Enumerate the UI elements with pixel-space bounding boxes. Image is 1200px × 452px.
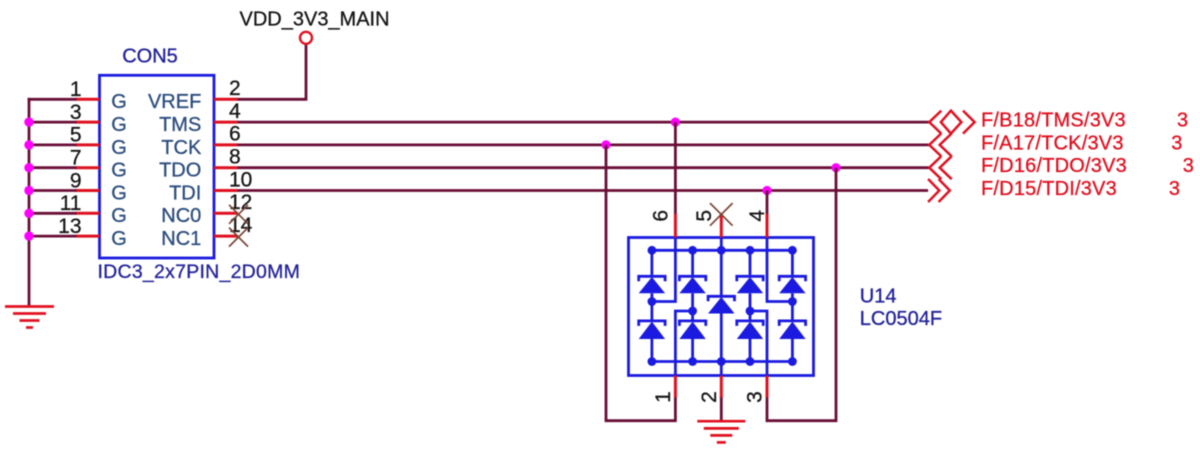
junction: TDI/U14.4 [762, 186, 771, 195]
ground symbol (U14 pin 2) [697, 421, 745, 442]
svg-text:TDI: TDI [169, 182, 201, 204]
svg-text:TDO: TDO [159, 160, 201, 182]
pin name VREF [148, 91, 201, 113]
pin number 14 [229, 214, 253, 237]
svg-text:U14: U14 [860, 286, 897, 308]
wire: bus to pin 7 [28, 166, 77, 169]
wire: net TDO horizontal [238, 166, 930, 169]
wire: bus to pin 3 [28, 121, 77, 124]
ESD array U14 body [629, 238, 814, 376]
pin number 5 [70, 124, 82, 147]
off-page connector F/D16/TDO/3V3 [929, 156, 951, 179]
label LC0504F (value) [860, 308, 942, 330]
steering diode pair column 2 (U14) [679, 250, 705, 361]
off-page connector F/D15/TDI/3V3 [928, 179, 950, 202]
svg-text:G: G [111, 182, 127, 204]
pin number 3 [70, 101, 82, 124]
svg-text:NC0: NC0 [161, 205, 201, 227]
net label F/D16/TDO/3V3 [981, 155, 1127, 177]
pin 10 stub (CON5 right) [214, 189, 238, 192]
U14 pin6 internal line [652, 238, 676, 302]
ground symbol (CON5 shield bus) [5, 307, 54, 328]
net label F/D15/TDI/3V3 [981, 178, 1117, 200]
U14 internal top rail [652, 249, 793, 252]
pin name G (pin 9) [111, 182, 127, 204]
wire: TCK down to U14 pin 1 [606, 145, 675, 421]
svg-text:5: 5 [70, 124, 82, 147]
no-connect X on CON5 pin 12 (NC0) [229, 205, 248, 224]
junction: bus/pin 7 [24, 163, 33, 172]
power port VDD_3V3_MAIN (circle) [300, 32, 312, 44]
svg-text:VREF: VREF [148, 91, 201, 113]
pin 12 stub (CON5 right) [214, 212, 238, 215]
svg-text:IDC3_2x7PIN_2D0MM: IDC3_2x7PIN_2D0MM [98, 261, 301, 283]
pin number 6 (U14) [650, 210, 673, 222]
svg-text:G: G [111, 91, 127, 113]
svg-text:TCK: TCK [161, 137, 202, 159]
net label VDD_3V3_MAIN [240, 9, 390, 31]
svg-text:CON5: CON5 [122, 46, 178, 68]
pin 9 stub (CON5 left) [76, 189, 100, 192]
svg-text:13: 13 [58, 215, 81, 238]
svg-text:TMS: TMS [159, 114, 201, 136]
pin number 1 [70, 78, 82, 101]
U14 pin3 internal line [750, 311, 767, 376]
junction: bus/pin 3 [24, 117, 33, 126]
svg-text:3: 3 [1169, 178, 1180, 200]
pin 5 stub (U14 top) [720, 214, 723, 238]
pin name TCK [161, 137, 202, 159]
wire: TMS down to U14 pin 6 [674, 122, 677, 215]
pin number 3 (U14) [744, 391, 767, 403]
svg-text:G: G [111, 160, 127, 182]
wire: bus to pin 1 [28, 98, 77, 101]
pin name G (pin 5) [111, 137, 127, 159]
svg-text:10: 10 [229, 168, 252, 191]
svg-text:G: G [111, 228, 127, 250]
svg-text:1: 1 [70, 78, 82, 101]
U14 pin1 internal line [675, 311, 692, 376]
wire: bus to pin 5 [28, 143, 77, 146]
sheet number 3 (TCK) [1171, 132, 1182, 154]
wire: TDO down to U14 pin 3 [767, 168, 836, 421]
off-page connector F/B18/TMS/3V3 [929, 111, 974, 134]
pin 8 stub (CON5 right) [214, 166, 238, 169]
pin number 5 (U14) [693, 210, 716, 222]
pin name NC0 [161, 205, 201, 227]
svg-text:4: 4 [229, 100, 241, 123]
svg-text:1: 1 [652, 391, 675, 403]
svg-text:NC1: NC1 [161, 228, 201, 250]
pin 5 stub (CON5 left) [76, 143, 100, 146]
pin 4 stub (CON5 right) [214, 121, 238, 124]
junction: TCK/U14.1 [601, 140, 610, 149]
pin number 12 [229, 191, 252, 214]
pin 14 stub (CON5 right) [214, 235, 238, 238]
U14 pin2 internal line (bottom) [720, 314, 723, 376]
svg-text:VDD_3V3_MAIN: VDD_3V3_MAIN [240, 9, 390, 31]
junction: bus/pin 11 [24, 209, 33, 218]
pin name TMS [159, 114, 201, 136]
wire: pin 2 to power port [238, 44, 307, 99]
svg-text:2: 2 [698, 391, 721, 403]
junction: TDO/U14.3 [831, 163, 840, 172]
svg-text:3: 3 [1183, 155, 1194, 177]
pin name G (pin 3) [111, 114, 127, 136]
off-page connector F/A17/TCK/3V3 [929, 133, 951, 156]
svg-text:2: 2 [229, 77, 241, 100]
steering diode pair column 4 (U14) [779, 250, 805, 361]
junction: bus/pin 9 [24, 186, 33, 195]
junction: bus/pin 13 [24, 231, 33, 240]
svg-text:7: 7 [70, 147, 82, 170]
wire: net TCK horizontal [238, 143, 930, 146]
pin 3 stub (CON5 left) [76, 121, 100, 124]
label IDC3_2x7PIN_2D0MM (value) [98, 261, 301, 283]
svg-text:6: 6 [229, 123, 241, 146]
svg-text:11: 11 [60, 192, 82, 215]
svg-text:4: 4 [746, 210, 769, 222]
junction: bus/pin 5 [24, 140, 33, 149]
label U14 (refdes) [860, 286, 897, 308]
pin name G (pin 13) [111, 228, 127, 250]
pin 7 stub (CON5 left) [76, 166, 100, 169]
svg-text:3: 3 [1177, 110, 1188, 132]
wire: ground bus vertical (left) [28, 98, 31, 306]
svg-text:3: 3 [70, 101, 82, 124]
pin 6 stub (U14 top) [674, 214, 677, 238]
pin 13 stub (CON5 left) [76, 235, 100, 238]
svg-text:5: 5 [693, 210, 716, 222]
pin number 10 [229, 168, 252, 191]
pin 2 stub (U14 bottom) [720, 376, 723, 398]
no-connect X on CON5 pin 14 (NC1) [229, 228, 248, 247]
pin 1 stub (CON5 left) [76, 98, 100, 101]
pin name G (pin 1) [111, 91, 127, 113]
wire: bus to pin 13 [28, 235, 77, 238]
pin number 11 [60, 192, 82, 215]
net label F/B18/TMS/3V3 [981, 110, 1126, 132]
wire: U14 pin 2 to ground [720, 397, 723, 421]
wire: TDI down to U14 pin 4 [766, 191, 769, 215]
wire: net TMS horizontal [238, 121, 930, 124]
pin number 4 [229, 100, 241, 123]
steering diode pair column 1 (U14) [639, 250, 665, 361]
svg-text:9: 9 [70, 169, 82, 192]
svg-text:G: G [111, 205, 127, 227]
sheet number 3 (TDO) [1183, 155, 1194, 177]
connector CON5 body [100, 75, 215, 258]
pin name TDI [169, 182, 201, 204]
U14 pin5 internal line (top) [720, 238, 723, 296]
svg-text:F/D15/TDI/3V3: F/D15/TDI/3V3 [981, 178, 1117, 200]
pin 4 stub (U14 top) [766, 214, 769, 238]
pin name G (pin 11) [111, 205, 127, 227]
sheet number 3 (TMS) [1177, 110, 1188, 132]
pin name TDO [159, 160, 201, 182]
pin number 1 (U14) [652, 391, 675, 403]
pin 11 stub (CON5 left) [76, 212, 100, 215]
no-connect X on U14 pin 5 [710, 203, 733, 226]
svg-text:G: G [111, 114, 127, 136]
wire: net TDI horizontal [238, 189, 929, 192]
pin number 7 [70, 147, 82, 170]
pin 1 stub (U14 bottom) [674, 376, 677, 398]
net label F/A17/TCK/3V3 [981, 132, 1124, 154]
wire: bus to pin 11 [28, 212, 77, 215]
pin number 4 (U14) [746, 210, 769, 222]
pin number 2 (U14) [698, 391, 721, 403]
svg-text:F/A17/TCK/3V3: F/A17/TCK/3V3 [981, 132, 1124, 154]
pin 6 stub (CON5 right) [214, 143, 238, 146]
pin name NC1 [161, 228, 201, 250]
junction: TMS/U14.6 [671, 118, 680, 127]
svg-text:LC0504F: LC0504F [860, 308, 942, 330]
pin number 6 [229, 123, 241, 146]
pin number 13 [58, 215, 81, 238]
pin 2 stub (CON5 right) [214, 98, 238, 101]
wire: bus to pin 9 [28, 189, 77, 192]
svg-text:G: G [111, 137, 127, 159]
sheet number 3 (TDI) [1169, 178, 1180, 200]
TVS diode (center, U14) [708, 296, 734, 313]
svg-text:6: 6 [650, 210, 673, 222]
pin 3 stub (U14 bottom) [766, 376, 769, 398]
U14 pin4 internal line [767, 238, 792, 302]
svg-text:3: 3 [1171, 132, 1182, 154]
pin number 2 [229, 77, 241, 100]
svg-text:F/B18/TMS/3V3: F/B18/TMS/3V3 [981, 110, 1126, 132]
pin number 9 [70, 169, 82, 192]
svg-text:8: 8 [229, 146, 241, 169]
svg-text:3: 3 [744, 391, 767, 403]
pin number 8 [229, 146, 241, 169]
pin name G (pin 7) [111, 160, 127, 182]
steering diode pair column 3 (U14) [737, 250, 763, 361]
svg-text:F/D16/TDO/3V3: F/D16/TDO/3V3 [981, 155, 1127, 177]
label CON5 (refdes) [122, 46, 178, 68]
svg-text:12: 12 [229, 191, 252, 214]
U14 internal junction dots [648, 246, 797, 366]
U14 internal bottom rail [652, 360, 793, 363]
